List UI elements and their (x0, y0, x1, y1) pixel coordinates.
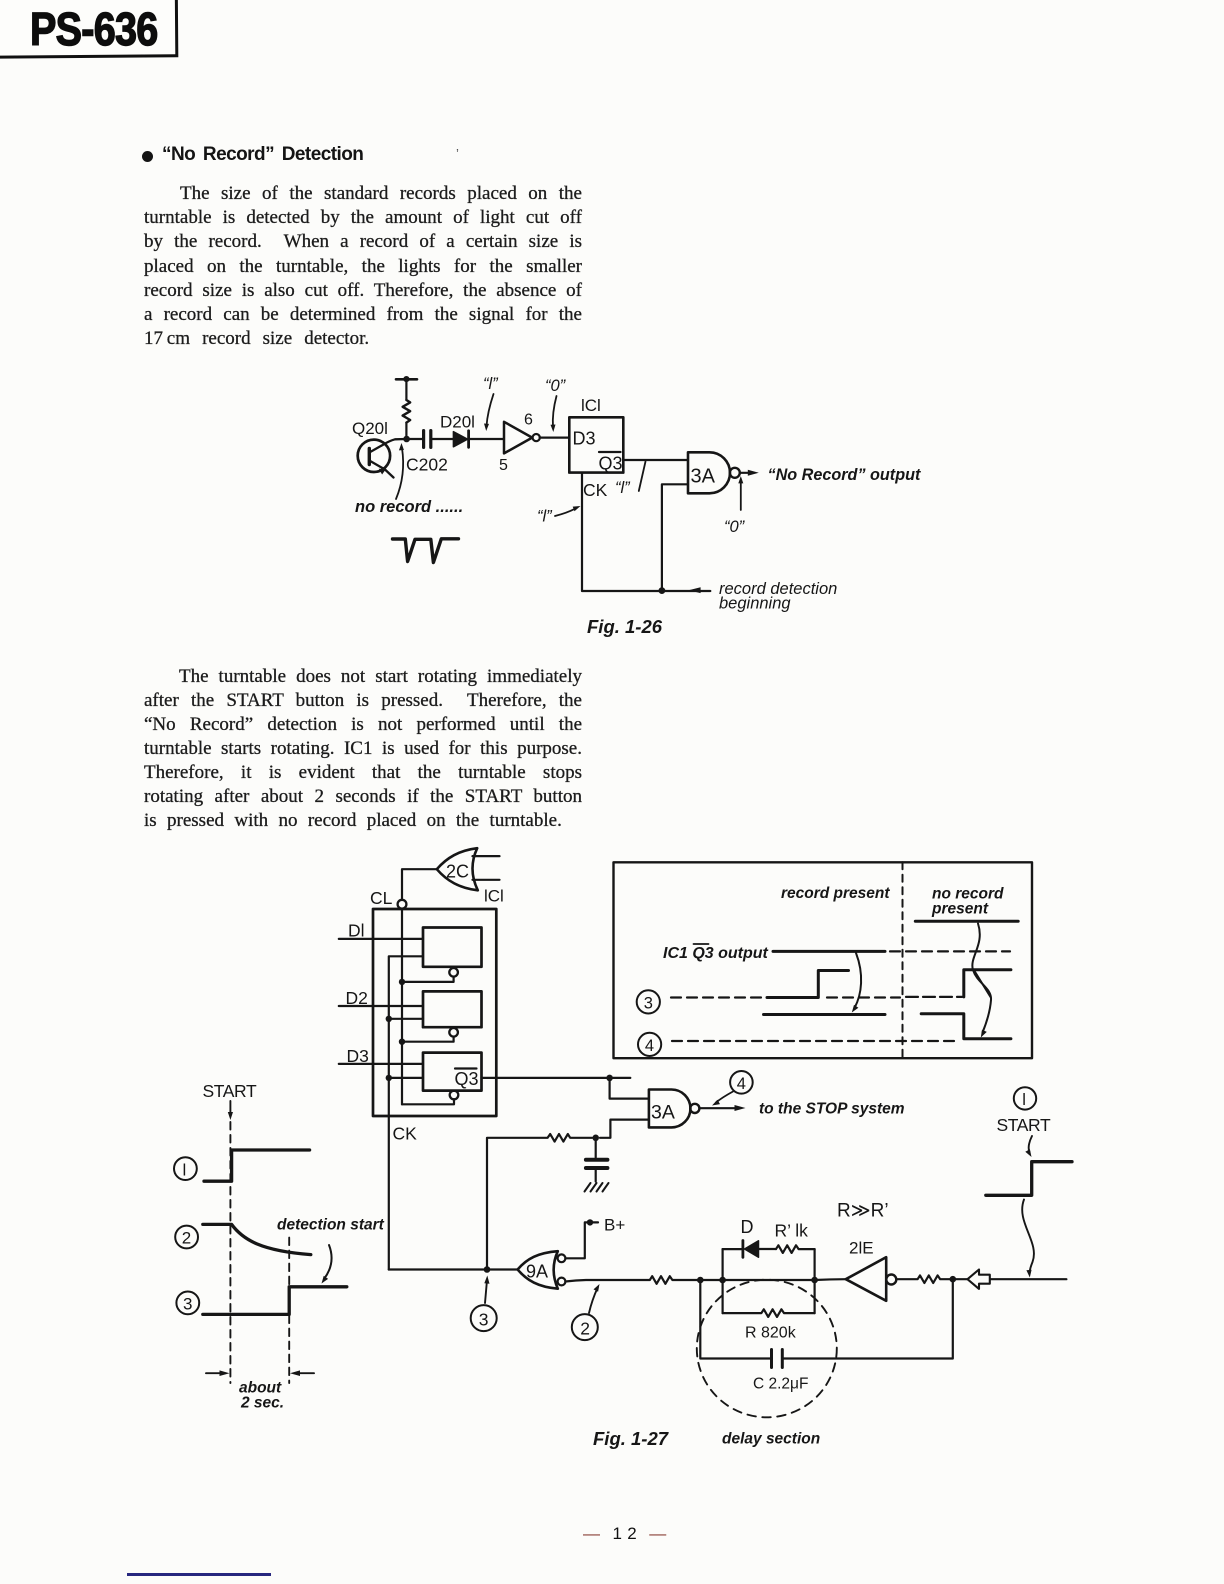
svg-text:D2: D2 (346, 988, 368, 1008)
leader from no-record to wire (396, 443, 404, 499)
svg-text:D3: D3 (573, 429, 596, 449)
label R 820k (745, 1325, 797, 1342)
label START right (997, 1115, 1051, 1135)
svg-text:Fig. 1-27: Fig. 1-27 (593, 1428, 670, 1449)
dimension arrow left (206, 1370, 230, 1376)
3A output arrow to STOP (699, 1105, 745, 1111)
node at parallel right (811, 1277, 818, 1284)
label R >> R' (837, 1201, 889, 1222)
svg-text:6: 6 (524, 412, 533, 429)
circled 3 (176, 1292, 199, 1315)
label D (741, 1217, 754, 1237)
OR gate 9A (518, 1251, 558, 1289)
Q3 label overbar (694, 943, 709, 945)
node delay input (697, 1277, 704, 1284)
inverter 5 (buffer with bubble) (504, 422, 540, 454)
row3 lower solid line (764, 1013, 886, 1016)
wire rail to resistor (405, 379, 407, 400)
D3 input wire (339, 1063, 423, 1065)
svg-text:2 sec.: 2 sec. (240, 1395, 284, 1412)
svg-text:to the STOP system: to the STOP system (759, 1101, 905, 1118)
label 2C (446, 862, 469, 882)
FF2 bubble to CL bus (399, 1037, 454, 1045)
CK wire down (582, 473, 710, 591)
wire C202 to D201 (431, 438, 454, 440)
CL bus vertical (401, 909, 403, 1105)
FF1 bubble to CL bus (399, 977, 454, 986)
svg-text:l: l (1022, 1091, 1026, 1109)
label CL (370, 888, 393, 908)
paragraph 2 (144, 665, 582, 833)
flip-flop FF3 box (423, 1053, 482, 1091)
wire down from resistor line to 9A output line (486, 1138, 488, 1269)
paragraph 1 (144, 182, 582, 351)
svg-text:2: 2 (580, 1318, 590, 1338)
circled 4 at 3A output (730, 1071, 753, 1094)
right: Q3 stays high line (915, 920, 1018, 923)
svg-text:CK: CK (393, 1124, 418, 1144)
CK line to 9A junction (389, 1268, 518, 1270)
parallel box left vertical (721, 1249, 723, 1313)
right row3 step up (964, 970, 1011, 997)
START label left (203, 1081, 257, 1101)
wire 9A top input to B+ (565, 1219, 598, 1258)
section heading bullet (142, 151, 153, 162)
svg-text:Q3: Q3 (455, 1069, 479, 1089)
row4 dashed baseline (672, 1040, 960, 1042)
CL bubble (398, 900, 407, 909)
wire inverter to IC1 (540, 437, 570, 439)
label No Record output (768, 466, 921, 484)
svg-text:l: l (183, 1160, 187, 1179)
CK stub to FF3 (386, 1075, 423, 1081)
svg-text:3: 3 (183, 1295, 192, 1314)
leader circled4 to output (712, 1092, 733, 1106)
timing diagram box (614, 862, 1033, 1058)
label Q3-bar in FF3 (455, 1069, 479, 1089)
wire junction to C202 (407, 438, 423, 440)
label "0" at NAND output with arrow (724, 518, 746, 536)
capacitor to ground (586, 1138, 608, 1182)
start arrow down (228, 1101, 233, 1120)
waveform 3 (203, 1287, 347, 1315)
wire Q3-bar to NAND 3A (623, 459, 688, 461)
capacitor C plates (772, 1350, 783, 1368)
no-record waveform (393, 539, 459, 563)
Q3-bar output wire (482, 1075, 631, 1082)
svg-text:no record ......: no record ...... (355, 498, 463, 516)
transistor Q201 (photo-transistor) (358, 439, 406, 478)
label record detection beginning (719, 580, 837, 613)
output wire with arrow (740, 470, 759, 476)
svg-text:Fig. 1-26: Fig. 1-26 (587, 616, 663, 637)
svg-text:4: 4 (645, 1037, 654, 1055)
svg-text:“0”: “0” (545, 377, 567, 395)
label 3A (691, 466, 716, 488)
svg-text:delay section: delay section (722, 1431, 820, 1448)
node above capacitor (592, 1135, 599, 1142)
wire through parallel mid (723, 1279, 815, 1281)
resistor R 820k (723, 1309, 815, 1317)
svg-text:START: START (203, 1081, 257, 1101)
wire junction up to NAND lower input (662, 484, 688, 590)
ground symbol (585, 1183, 609, 1192)
svg-text:D3: D3 (347, 1046, 369, 1066)
right row4 step down (921, 1014, 1011, 1039)
svg-text:Q20l: Q20l (352, 419, 388, 438)
leader detection start arrow (322, 1245, 332, 1284)
label D2 (346, 988, 368, 1008)
label "1" on Q3 wire with tick (615, 479, 631, 497)
svg-text:9A: 9A (526, 1262, 548, 1282)
svg-text:D: D (741, 1217, 754, 1237)
wire to 21E (815, 1278, 846, 1281)
svg-text:3A: 3A (691, 466, 716, 488)
label IC1 (484, 887, 504, 906)
pin Q3-bar label (599, 454, 623, 474)
dashed delay circle (697, 1280, 837, 1418)
node at 9A output (484, 1266, 491, 1273)
timing divider dashed (902, 862, 904, 1058)
CK bus vertical (389, 956, 423, 1269)
resistor R' 1k (776, 1245, 815, 1253)
svg-text:2: 2 (182, 1229, 191, 1248)
node at parallel left (719, 1277, 726, 1284)
curved arrow Q3 falls (852, 953, 861, 1013)
circled 3 pointer (471, 1305, 497, 1331)
svg-text:“No Record” output: “No Record” output (768, 466, 921, 484)
label C 2.2uF (753, 1376, 808, 1393)
feedback wire via capacitor C (700, 1279, 953, 1358)
right step waveform (986, 1162, 1072, 1196)
svg-text:2C: 2C (446, 862, 469, 882)
Q3 output dashed continuation (890, 950, 1010, 952)
svg-text:R’ lk: R’ lk (775, 1221, 809, 1241)
IC1 outer box (373, 909, 496, 1116)
bottom navy rule (127, 1573, 271, 1576)
2C input stub top (473, 855, 500, 857)
supply rail top of R (396, 376, 417, 382)
PS-636 model number box (0, 0, 178, 59)
OR gate 2C (437, 848, 478, 890)
label "0" after inverter with leader (545, 377, 567, 395)
circled 3 row (637, 990, 660, 1013)
label record present (781, 885, 890, 902)
label to the STOP system (759, 1101, 905, 1118)
Fig 1-27 caption (593, 1428, 670, 1449)
node junction at Q201 collector (403, 436, 410, 443)
pin 5 label (499, 457, 508, 474)
label no record present (931, 886, 1004, 918)
wire node to right end (953, 1278, 1067, 1280)
svg-text:lCl: lCl (484, 887, 504, 906)
node right (950, 1276, 957, 1283)
label CK (393, 1124, 418, 1144)
label B+ (604, 1216, 625, 1235)
capacitor C202 (424, 431, 431, 448)
resistor (pull-up on Q201 collector) (403, 400, 411, 423)
9A input bubble top (558, 1254, 566, 1262)
label R' 1k (775, 1221, 809, 1241)
flip-flop FF1 box (423, 928, 482, 967)
svg-text:D20l: D20l (440, 413, 475, 432)
wire 21E to resistor (896, 1275, 953, 1283)
svg-text:record present: record present (781, 885, 890, 902)
wire D201 to inverter 5 (469, 438, 504, 440)
circled 4 row (638, 1033, 661, 1056)
svg-text:CK: CK (583, 480, 608, 500)
svg-text:3: 3 (479, 1309, 489, 1329)
pin D3 label (573, 429, 596, 449)
wire 2C output to CL (402, 869, 437, 900)
label D201 (440, 413, 475, 432)
FF1 output bubble (449, 968, 458, 977)
svg-text:2lE: 2lE (849, 1239, 874, 1258)
page number (583, 1524, 667, 1544)
svg-text:4: 4 (737, 1075, 746, 1093)
pin CK label (583, 480, 608, 500)
circled 2 (175, 1226, 198, 1249)
label D1 (348, 921, 365, 941)
FF2 output bubble (449, 1028, 458, 1037)
label 21E (849, 1239, 874, 1258)
CK stub to FF2 (386, 1016, 423, 1022)
svg-text:5: 5 (499, 457, 508, 474)
diode D (723, 1241, 776, 1258)
svg-text:CL: CL (370, 888, 393, 908)
Fig 1-26 caption (587, 616, 663, 637)
svg-text:3A: 3A (651, 1102, 675, 1124)
svg-text:3: 3 (644, 994, 653, 1012)
svg-text:B+: B+ (604, 1216, 625, 1235)
D2 input wire (339, 1005, 423, 1007)
node record-detection junction (659, 587, 666, 594)
NAND gate 3A (649, 1090, 700, 1128)
svg-text:“0”: “0” (724, 518, 746, 536)
row3 dashed after step (827, 996, 900, 998)
label about 2 sec (239, 1380, 284, 1412)
label "1" before inverter with leader (483, 375, 499, 393)
right row3 dashed lead-in (906, 996, 962, 998)
label no record ...... (355, 498, 463, 516)
wire node to parallel box (700, 1279, 722, 1281)
arrow on record detection line (689, 587, 701, 593)
svg-text:IC1 Q3 output: IC1 Q3 output (663, 945, 769, 962)
diode D201 (453, 431, 468, 448)
wire resistor to junction (405, 423, 407, 439)
dashed timeline 1 (229, 1122, 231, 1383)
FF3 output bubble (450, 1091, 459, 1100)
D1 input wire (339, 938, 423, 940)
short diagonal on step (975, 971, 991, 997)
svg-text:beginning: beginning (719, 595, 791, 613)
dashed timeline 2 (288, 1238, 290, 1383)
svg-text:“l”: “l” (537, 508, 553, 526)
Q3 overbar (599, 451, 621, 453)
label IC1 Q3 output (663, 945, 769, 962)
circled 1 (174, 1157, 197, 1180)
9A input bubble bottom (558, 1278, 566, 1286)
label detection start (277, 1217, 385, 1234)
label C202 (406, 455, 448, 475)
waveform 2 decay (203, 1224, 311, 1254)
S curve to main line (1022, 1200, 1034, 1278)
wire Q3 node down to NAND 3A input (610, 1078, 649, 1099)
FF3 bubble to CL bus corner (402, 1099, 454, 1104)
Q3 output solid line (773, 950, 885, 953)
svg-text:“l”: “l” (483, 375, 499, 393)
svg-text:START: START (997, 1115, 1051, 1135)
svg-text:detection start: detection start (277, 1217, 385, 1234)
wire 9A bottom input to resistor (565, 1276, 700, 1284)
IC1 box (flip-flop) (569, 417, 623, 472)
label 9A (526, 1262, 548, 1282)
label D3 (347, 1046, 369, 1066)
svg-text:Dl: Dl (348, 921, 365, 941)
row3 dashed baseline left (671, 996, 767, 998)
svg-text:present: present (931, 901, 989, 918)
inverter 21E (846, 1257, 897, 1301)
parallel box right vertical (813, 1249, 815, 1313)
label delay section (722, 1431, 820, 1448)
2C input stub bottom (473, 879, 500, 881)
START right (1014, 1087, 1036, 1109)
svg-text:C202: C202 (406, 455, 448, 475)
svg-text:Q3: Q3 (599, 454, 623, 474)
svg-text:R≫R’: R≫R’ (837, 1201, 889, 1222)
svg-text:C 2.2μF: C 2.2μF (753, 1376, 808, 1393)
svg-text:“l”: “l” (615, 479, 631, 497)
right S-curve arrow (972, 924, 991, 1038)
svg-text:lCl: lCl (581, 396, 601, 415)
open arrow symbol (968, 1270, 990, 1289)
section heading (162, 144, 363, 166)
NAND gate 3A (688, 452, 740, 493)
label IC1 (581, 396, 601, 415)
pin 6 label (524, 412, 533, 429)
leader start to step (1025, 1136, 1032, 1157)
3A lower input network (600, 1120, 649, 1138)
waveform 1 (204, 1150, 310, 1181)
svg-text:R 820k: R 820k (745, 1325, 797, 1342)
label 3A (651, 1102, 675, 1124)
resistor to 3A input (487, 1134, 592, 1142)
label Q201 (352, 419, 388, 438)
circled 2 pointer (572, 1314, 598, 1340)
row3 waveform record-present (767, 971, 849, 998)
label "1" pointing CK line (537, 508, 553, 526)
flip-flop FF2 box (423, 991, 482, 1027)
dimension arrow right (290, 1370, 314, 1376)
